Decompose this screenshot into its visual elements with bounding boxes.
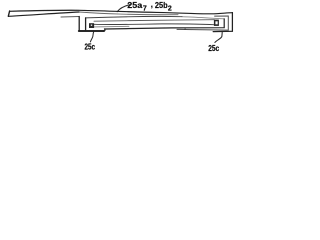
left clip 25c (dark block)	[89, 23, 94, 28]
bar end hook	[104, 29, 105, 31]
svg-text:25c: 25c	[208, 44, 219, 53]
outer right end wrap	[213, 13, 232, 32]
inner ledge line	[94, 20, 214, 22]
leader from right 25c	[215, 32, 222, 42]
second bottom line with mid wrap corner	[177, 16, 228, 30]
strip top edge (long back line)	[10, 10, 233, 14]
right clip 25c (dark block)	[214, 20, 219, 26]
svg-text:25b: 25b	[155, 0, 168, 10]
bottom thick bar	[79, 30, 104, 32]
tray inner top line tail to inner right corner	[182, 17, 224, 19]
strip top edge left reinforcement	[10, 10, 79, 11]
leader from left 25c	[90, 32, 93, 42]
svg-text:,: ,	[151, 0, 153, 9]
svg-text:2: 2	[168, 5, 172, 12]
tray left edge	[85, 18, 87, 30]
left clip lower line	[94, 25, 129, 28]
leader to top label	[117, 5, 130, 12]
step jog tick	[184, 28, 186, 30]
strip left end cap	[8, 11, 9, 16]
svg-text:25c: 25c	[85, 42, 96, 51]
z-step vertical	[78, 17, 80, 31]
tray bottom line with inner wrap corner	[105, 19, 225, 29]
blade under-line continuing right	[79, 12, 178, 15]
svg-text:25a: 25a	[127, 0, 142, 10]
inner mid line	[94, 23, 214, 26]
svg-text:7: 7	[143, 6, 147, 13]
z-step top line	[61, 16, 79, 19]
strip bottom edge (wedge, converging)	[9, 12, 79, 16]
tray inner top line	[86, 16, 182, 18]
